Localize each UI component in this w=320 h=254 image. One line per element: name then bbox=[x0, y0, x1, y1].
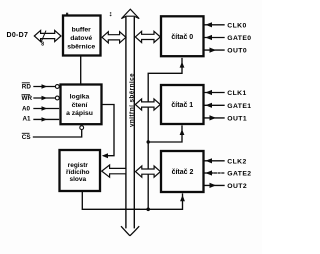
svg-text:OUT2: OUT2 bbox=[227, 183, 247, 190]
svg-text:CS: CS bbox=[22, 134, 31, 141]
svg-text:OUT0: OUT0 bbox=[227, 48, 247, 55]
svg-text:GATE1: GATE1 bbox=[227, 103, 251, 110]
svg-text:GATE0: GATE0 bbox=[227, 35, 251, 42]
svg-text:čítač 0: čítač 0 bbox=[171, 34, 193, 41]
svg-text:buffer: buffer bbox=[72, 26, 92, 33]
svg-text:logika: logika bbox=[70, 94, 90, 101]
svg-text:vnitřní sběrnice: vnitřní sběrnice bbox=[128, 73, 135, 127]
svg-text:CLK2: CLK2 bbox=[227, 158, 246, 165]
svg-text:CLK1: CLK1 bbox=[227, 90, 246, 97]
svg-text:sběrnice: sběrnice bbox=[67, 43, 95, 50]
svg-text:WR: WR bbox=[22, 95, 33, 102]
svg-text:slova: slova bbox=[69, 176, 86, 183]
svg-text:datové: datové bbox=[70, 35, 92, 42]
svg-text:GATE2: GATE2 bbox=[227, 171, 251, 178]
svg-text:a zápisu: a zápisu bbox=[66, 110, 93, 117]
svg-text:A0: A0 bbox=[22, 106, 31, 113]
svg-text:čítač 1: čítač 1 bbox=[171, 102, 193, 109]
svg-text:čítač 2: čítač 2 bbox=[172, 169, 194, 176]
svg-text:8: 8 bbox=[41, 41, 44, 47]
svg-text:CLK0: CLK0 bbox=[227, 22, 246, 29]
svg-text:A1: A1 bbox=[23, 116, 32, 123]
svg-text:D0-D7: D0-D7 bbox=[7, 32, 29, 39]
svg-text:čtení: čtení bbox=[72, 102, 89, 109]
svg-text:RD: RD bbox=[22, 83, 32, 90]
svg-text:registr: registr bbox=[68, 162, 89, 169]
svg-text:OUT1: OUT1 bbox=[227, 115, 247, 122]
